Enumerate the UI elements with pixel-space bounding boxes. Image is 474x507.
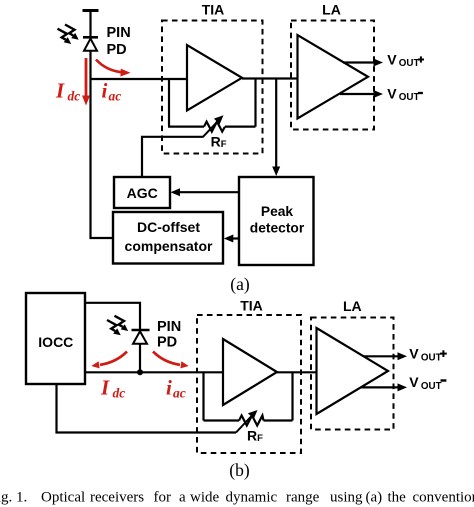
arrow: Peak detector to DC-offset compensator (224, 235, 239, 243)
svg-text:OUT: OUT (399, 58, 420, 69)
svg-text:compensator: compensator (125, 238, 213, 254)
IOCC box (26, 293, 85, 384)
svg-text:detector: detector (250, 221, 305, 236)
svg-text:for: for (154, 489, 172, 505)
wire: IOCC top to photodiode cathode (b) (85, 303, 140, 330)
svg-text:dc: dc (68, 89, 81, 104)
DC-offset compensator box (113, 212, 223, 264)
Peak detector box (239, 177, 314, 265)
red curved arrow i_ac (a) (96, 60, 131, 77)
light arrow 1 into photodiode (a) (65, 25, 79, 40)
svg-text:LA: LA (343, 298, 362, 314)
label I_dc (a) (55, 78, 80, 103)
op-amp triangle TIA (a) (187, 45, 242, 111)
svg-text:a: a (179, 489, 186, 505)
svg-text:I: I (55, 78, 65, 102)
photodiode PIN PD triangle (a) (84, 39, 97, 51)
arrow: Peak detector to AGC (171, 188, 240, 196)
wire: tick to photodiode cathode (a) (89, 11, 91, 38)
label i_ac (b) (166, 375, 186, 400)
LA dashed box (b) (311, 318, 394, 430)
red curved arrow I_dc (b) (91, 352, 127, 369)
svg-text:IOCC: IOCC (38, 334, 73, 350)
svg-text:receivers: receivers (90, 489, 144, 505)
wire: TIA output to LA input (a) (242, 77, 298, 79)
red arrow I_dc (a) (82, 58, 90, 106)
svg-text:DC-offset: DC-offset (137, 219, 200, 235)
svg-text:PD: PD (157, 335, 177, 351)
svg-text:TIA: TIA (202, 2, 225, 18)
resistor R_F zigzag (b) (239, 416, 264, 426)
wire: IOCC bottom to feedback node (b) (57, 384, 237, 433)
svg-text:V: V (387, 85, 397, 101)
svg-text:V: V (409, 374, 419, 390)
wire: feedback bottom left segment (a) (168, 125, 204, 127)
svg-text:(a): (a) (366, 489, 383, 505)
svg-text:wide: wide (190, 489, 220, 505)
wire: main signal IOCC to TIA input (b) (85, 371, 223, 373)
wire: feedback left vertical (a) (168, 79, 170, 126)
junction node dot (b) (137, 369, 143, 375)
light arrow 2 into photodiode (b) (107, 320, 121, 335)
svg-text:V: V (409, 346, 419, 362)
TIA dashed box (a) (162, 21, 263, 154)
svg-text:i: i (102, 79, 108, 103)
red curved arrow i_ac (b) (153, 352, 189, 369)
svg-text:I: I (100, 375, 110, 399)
wire: photodiode anode to main node (b) (139, 344, 141, 373)
AGC box (114, 177, 170, 208)
wire: photodiode anode down and right into DC-offset compensator (a) (91, 51, 114, 238)
figure caption: Fig. 1. Optical receivers for a wide dynamic range (0, 489, 474, 505)
photodiode PIN PD cathode bar (a) (83, 36, 98, 39)
wire: TIA output to LA input (b) (277, 371, 317, 373)
wire: feedback right vertical (a) (254, 79, 256, 127)
svg-text:the: the (388, 489, 407, 505)
svg-text:TIA: TIA (240, 298, 263, 314)
svg-text:AGC: AGC (127, 185, 158, 201)
wire: feedback bottom right segment (a) (225, 125, 256, 127)
svg-text:OUT: OUT (421, 381, 442, 392)
output arrow V_OUT+ (b) (364, 352, 407, 360)
svg-text:dynamic: dynamic (226, 489, 278, 505)
svg-text:ac: ac (173, 386, 186, 401)
light arrow 2 into photodiode (a) (58, 29, 72, 44)
svg-text:LA: LA (322, 2, 341, 18)
svg-text:range: range (286, 489, 320, 505)
svg-text:ac: ac (109, 89, 122, 104)
svg-text:(b): (b) (229, 460, 250, 480)
svg-text:Peak: Peak (261, 204, 294, 219)
op-amp triangle LA (b) (317, 328, 389, 414)
label I_dc (b) (100, 375, 125, 400)
svg-text:PIN: PIN (107, 25, 131, 41)
op-amp triangle LA (a) (298, 35, 369, 119)
light arrow 1 into photodiode (b) (115, 316, 129, 331)
svg-text:PD: PD (107, 42, 127, 58)
resistor R_F zigzag (a) (204, 122, 225, 132)
svg-text:PIN: PIN (157, 319, 181, 335)
wire: feedback right vertical (b) (291, 372, 293, 420)
output arrow V_OUT- (a) (340, 90, 383, 98)
svg-text:(a): (a) (230, 274, 250, 294)
LA dashed box (a) (291, 21, 374, 130)
wire: feedback bottom left segment (b) (204, 419, 240, 421)
svg-text:conventional: conventional (413, 489, 474, 505)
TIA dashed box (b) (197, 315, 301, 453)
wire: feedback left vertical (b) (202, 372, 204, 420)
svg-text:OUT: OUT (421, 353, 442, 364)
wire: AGC control to R_F (a) (142, 137, 204, 177)
op-amp triangle TIA (b) (223, 339, 277, 405)
photodiode PIN PD cathode bar (b) (132, 329, 150, 332)
wire: main signal photodiode node to TIA input (a) (91, 78, 188, 80)
wire: feedback bottom right segment (b) (264, 419, 293, 421)
label i_ac (a) (102, 79, 122, 104)
output arrow V_OUT- (b) (361, 383, 407, 391)
svg-text:OUT: OUT (399, 92, 420, 103)
svg-text:V: V (387, 51, 397, 67)
photodiode PIN PD triangle (b) (133, 331, 147, 344)
supply bias tick (a) (83, 9, 99, 12)
wire: TIA output down into Peak detector with arrowhead (a) (272, 79, 280, 177)
output arrow V_OUT+ (a) (343, 59, 383, 67)
variable resistor control arrow through R_F (a) (203, 115, 224, 137)
variable resistor control arrow through R_F (b), fed from IOCC (236, 410, 258, 433)
svg-text:using: using (330, 489, 363, 505)
svg-text:Optical: Optical (41, 489, 85, 505)
svg-text:dc: dc (113, 386, 126, 401)
svg-text:i: i (166, 375, 172, 399)
svg-text:Fig. 1.: Fig. 1. (0, 489, 27, 505)
